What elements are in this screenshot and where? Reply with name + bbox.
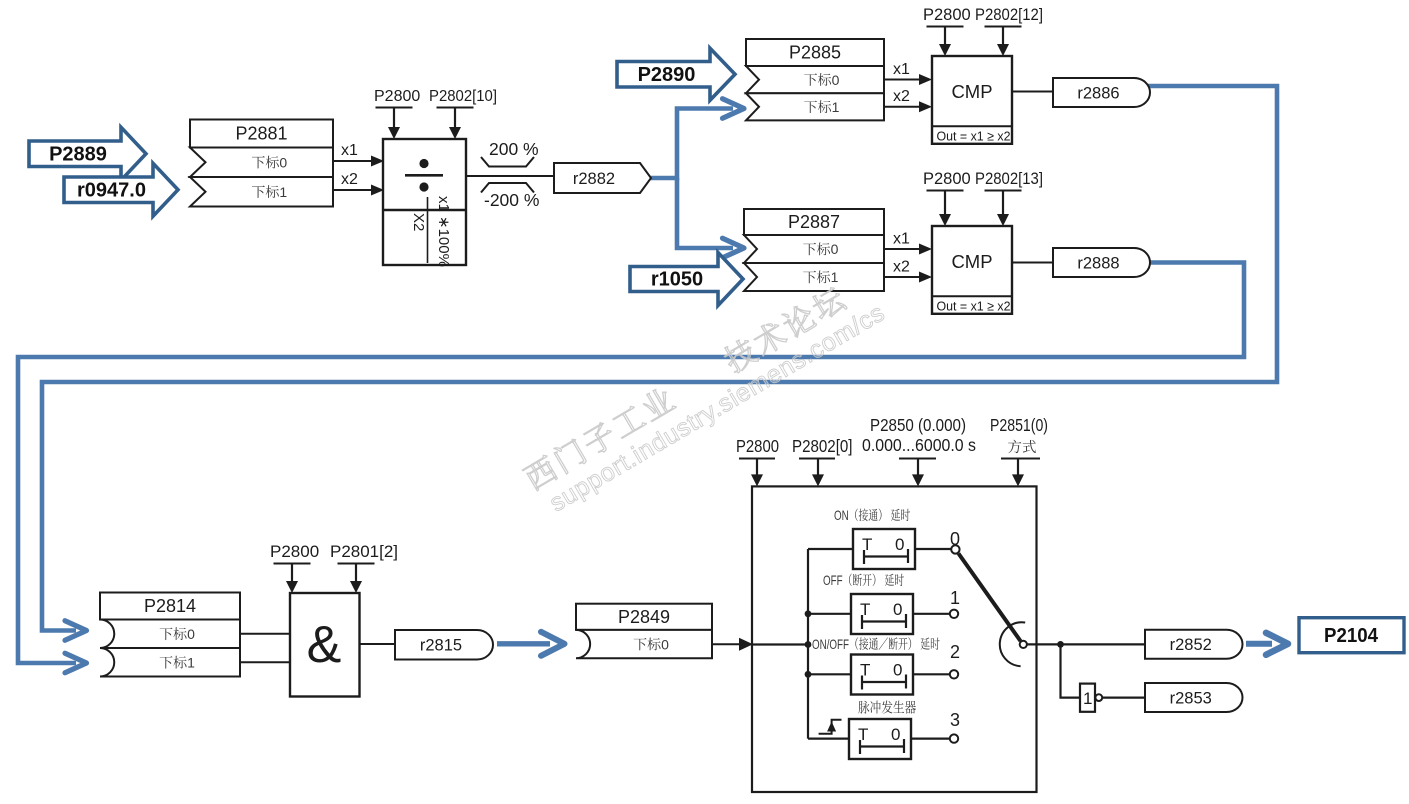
parameter box P2814 [100,593,240,677]
divider block U1 (x1/x2*100%) [383,139,466,265]
svg-text:&: & [307,616,342,674]
wire timer input bus [752,643,808,645]
wire to inverter [1061,644,1081,697]
svg-text:P2802[12]: P2802[12] [975,6,1043,24]
svg-text:x1: x1 [341,142,358,159]
svg-text:P2800: P2800 [270,542,319,561]
wire P2849 to timer block [712,643,740,645]
inverter U3 (logic 1 negate) [1080,684,1095,712]
svg-text:r1050: r1050 [651,269,703,291]
selector switch wiper [959,554,1021,642]
wire x2 P2881 to divider [333,189,371,191]
svg-text:1: 1 [1083,689,1092,708]
timer T3 ONOFF-delay [808,673,851,675]
svg-text:0: 0 [279,154,287,170]
parameter box P2849 [576,604,712,659]
node 2 [950,670,958,678]
junction dot timer1 [805,610,812,617]
svg-text:0.000...6000.0 s: 0.000...6000.0 s [862,435,976,455]
AND gate U2 [290,593,360,697]
svg-text:x1: x1 [893,231,910,248]
svg-text:P2104: P2104 [1324,625,1379,647]
svg-text:Out = x1 ≥ x2: Out = x1 ≥ x2 [937,299,1011,314]
svg-text:x2: x2 [893,259,910,276]
connector P2890 (input arrow) [617,48,735,100]
wire x2 P2885 to CMP1 [884,106,919,108]
timer T4 pulse [808,737,849,739]
svg-text:1: 1 [187,655,195,671]
svg-text:P2887: P2887 [788,212,840,232]
label pulse generator [858,701,869,714]
svg-text:P2800: P2800 [374,88,420,105]
node 0 [951,545,959,553]
wire net r2888 to P2814 index1 (blue feedback) [18,263,1244,664]
limit symbol -200% [481,183,534,193]
svg-text:1: 1 [832,99,840,115]
wire inverter to r2853 [1102,696,1145,698]
svg-text:0: 0 [661,636,669,652]
comparator CMP1 [932,56,1012,144]
wire CMP1 output [1012,91,1053,93]
svg-text:x2: x2 [341,171,358,188]
wire P2814 index0 to AND [240,633,290,635]
wire x1 P2885 to CMP1 [884,79,919,81]
watermark [521,269,890,521]
connector r1050 (input arrow) [630,253,743,306]
svg-text:P2800: P2800 [736,436,779,456]
svg-text:ON/OFF: ON/OFF [812,637,849,652]
svg-text:P2802[13]: P2802[13] [975,170,1043,188]
svg-text:r2886: r2886 [1077,84,1119,102]
svg-text:X2: X2 [410,213,427,231]
connector r2882 (output) [554,163,651,193]
wire x2 P2887 to CMP2 [884,276,919,278]
svg-text:Out = x1 ≥ x2: Out = x1 ≥ x2 [937,129,1011,144]
junction dot timer2 [805,671,812,678]
svg-text:1: 1 [950,588,960,608]
svg-text:0: 0 [895,535,904,554]
connector P2104 (output box) [1299,618,1404,653]
svg-text:ON: ON [834,508,849,523]
svg-text:P2890: P2890 [638,64,696,86]
junction dot output [1057,641,1064,648]
svg-text:0: 0 [893,661,902,680]
svg-text:1: 1 [279,184,287,200]
svg-text:OFF: OFF [823,573,843,588]
connector r2888 (output) [1053,248,1150,277]
connector r2853 (output) [1145,683,1243,712]
svg-text:CMP: CMP [951,251,992,272]
connector r2886 (output) [1053,78,1150,107]
edge trigger symbol [819,720,842,734]
svg-text:P2800: P2800 [923,170,971,188]
parameter box P2887 [744,209,884,291]
node 3 [950,734,958,742]
timer T2 OFF-delay [808,613,851,615]
wire divider output [466,175,554,177]
svg-text:P2885: P2885 [789,43,841,63]
svg-text:P2802[10]: P2802[10] [429,88,497,105]
svg-text:P2889: P2889 [49,143,107,165]
svg-text:CMP: CMP [951,81,992,102]
svg-text:P2800: P2800 [923,6,971,24]
comparator CMP2 [932,226,1012,314]
wire net r2882 to comparators (blue) [650,109,733,179]
svg-text:0: 0 [950,529,960,549]
svg-text:0: 0 [831,241,839,257]
svg-text:0: 0 [187,626,195,642]
svg-text:1: 1 [831,269,839,285]
wire x1 P2887 to CMP2 [884,248,919,250]
wire AND output [360,643,396,645]
svg-text:P2814: P2814 [144,596,196,616]
connector P2889 (input arrow) [29,127,146,180]
svg-text:-200 %: -200 % [484,190,539,210]
svg-text:2: 2 [950,642,960,662]
connector r2815 (output) [395,630,493,660]
connector r0947.0 (input arrow) [64,163,178,216]
limit symbol 200% [481,157,534,167]
svg-text:x1: x1 [893,61,910,78]
svg-text:P2801[2]: P2801[2] [330,542,398,561]
arrow r2852 to P2104 (blue) [1246,641,1272,647]
svg-text:3: 3 [950,710,960,730]
svg-text:P2851(0): P2851(0) [990,415,1048,435]
svg-text:P2802[0]: P2802[0] [792,436,853,456]
svg-text:r2852: r2852 [1170,636,1212,654]
svg-text:x2: x2 [893,88,910,105]
svg-text:r0947.0: r0947.0 [77,179,146,201]
svg-text:r2853: r2853 [1170,689,1212,707]
wire switch output [1027,643,1145,645]
arrow r2815 to P2849 (blue) [497,641,550,646]
svg-text:P2881: P2881 [235,124,287,144]
svg-text:x1 ∗100%: x1 ∗100% [435,196,452,267]
selector arc [1000,622,1025,666]
svg-text:0: 0 [891,725,900,744]
junction dot input [805,641,812,648]
wire CMP2 output [1012,262,1053,264]
parameter box P2881 [190,120,333,207]
svg-text:r2888: r2888 [1077,254,1119,272]
timer T1 ON-delay [808,548,853,550]
svg-text:r2882: r2882 [573,170,615,188]
svg-text:0: 0 [832,72,840,88]
svg-text:r2815: r2815 [420,637,462,655]
svg-text:P2850 (0.000): P2850 (0.000) [870,415,966,435]
selector pole [1020,641,1027,648]
wire net r2886 to P2814 index0 (blue feedback) [42,86,1277,631]
svg-text:200 %: 200 % [489,139,539,159]
svg-text:P2849: P2849 [618,607,670,627]
connector r2852 (output) [1145,630,1243,659]
parameter box P2885 [746,39,884,120]
node 1 [950,610,958,618]
svg-text:0: 0 [893,600,902,619]
timer block frame [752,486,1037,792]
wire P2814 index1 to AND [240,661,290,663]
wire x1 P2881 to divider [333,160,371,162]
